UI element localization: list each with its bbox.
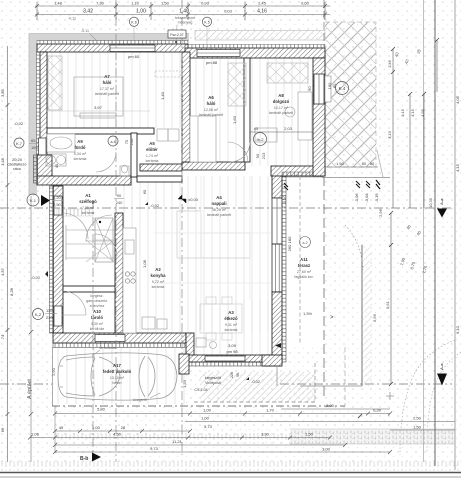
door size entry inner: [114, 193, 124, 205]
svg-text:A3: A3: [228, 310, 234, 315]
svg-text:3,90: 3,90: [261, 432, 270, 437]
svg-text:5,34 m²: 5,34 m²: [74, 152, 87, 156]
floor texture in rooms: [47, 52, 313, 355]
wall: left block sw corner step: [34, 155, 132, 185]
svg-text:1,20: 1,20: [182, 379, 187, 388]
svg-text:7,35 m²: 7,35 m²: [82, 206, 95, 210]
interior: hall washer boxes: [157, 129, 179, 141]
interior dim study: [250, 126, 313, 132]
svg-text:7,30: 7,30: [96, 1, 105, 6]
svg-text:-0,06: -0,06: [354, 193, 359, 203]
room label carport A17: [103, 363, 132, 385]
left dimension texts: [0, 88, 27, 432]
svg-text:13,10 m²: 13,10 m²: [110, 376, 125, 380]
svg-text:1,20: 1,20: [53, 195, 62, 200]
svg-text:4,95: 4,95: [420, 108, 425, 117]
svg-text:A6: A6: [208, 95, 214, 100]
right property lines: [424, 0, 456, 470]
svg-text:27,60 m²: 27,60 m²: [297, 270, 312, 274]
svg-text:9,61: 9,61: [385, 300, 390, 309]
site contour dotted curves bottom right: [345, 225, 461, 455]
svg-text:pm 88: pm 88: [206, 60, 218, 65]
axis line top right: [323, 0, 325, 400]
svg-text:A17: A17: [113, 363, 121, 368]
svg-text:Vb.lépcső: Vb.lépcső: [205, 381, 221, 385]
svg-text:>: >: [330, 315, 334, 321]
interior: entry closet band: [57, 209, 113, 262]
svg-text:utca: utca: [13, 166, 21, 171]
svg-text:260: 260: [287, 244, 292, 251]
svg-text:1,06: 1,06: [31, 432, 40, 437]
svg-text:A5: A5: [149, 141, 155, 146]
wall: dining west step wall: [186, 333, 194, 362]
svg-text:2,45: 2,45: [258, 1, 267, 6]
carport leader notes: [51, 346, 160, 402]
svg-text:50: 50: [370, 161, 375, 166]
gravel band bottom: [0, 429, 461, 471]
svg-text:0,39: 0,39: [373, 408, 382, 413]
svg-text:K.7: K.7: [16, 141, 23, 146]
svg-text:3,00: 3,00: [322, 447, 331, 452]
svg-text:1,00: 1,00: [92, 425, 101, 430]
svg-text:A2: A2: [155, 267, 161, 272]
svg-text:4,16: 4,16: [257, 9, 267, 15]
svg-text:1,46: 1,46: [387, 59, 392, 68]
svg-text:5,80: 5,80: [97, 407, 106, 412]
section marker B bottom: [80, 453, 101, 463]
svg-text:fedett parkoló: fedett parkoló: [103, 369, 132, 374]
svg-text:laminált parkett: laminált parkett: [207, 213, 231, 217]
svg-text:fagyálló ker.: fagyálló ker.: [294, 275, 313, 279]
svg-text:A1: A1: [85, 193, 91, 198]
room label study A8: [269, 93, 293, 115]
svg-text:9,31 m²: 9,31 m²: [225, 323, 238, 327]
svg-text:210: 210: [129, 138, 134, 145]
terrace slope text: [303, 311, 334, 321]
bottom border lines: [0, 473, 461, 478]
wall: lower-left exterior wall: [50, 186, 64, 333]
svg-text:90: 90: [117, 193, 122, 198]
wall: partition bath north: [47, 128, 154, 134]
level marker annex: [246, 377, 261, 384]
interior: bath fixtures: [46, 134, 129, 176]
corridor shelf lines: [66, 221, 115, 262]
svg-text:80: 80: [332, 83, 337, 88]
car top view: [58, 353, 177, 400]
svg-text:3,42: 3,42: [83, 9, 93, 15]
svg-text:A11: A11: [300, 257, 308, 262]
svg-text:4,15: 4,15: [455, 163, 460, 172]
zero level marker: [178, 195, 199, 203]
svg-text:-0,02: -0,02: [150, 203, 160, 208]
svg-text:110: 110: [46, 308, 53, 313]
bottom dimension lines: [30, 409, 455, 452]
svg-text:A4: A4: [216, 195, 222, 200]
room label terrace A11: [294, 257, 313, 279]
plus mark: [386, 392, 394, 400]
svg-text:49: 49: [59, 425, 64, 430]
svg-text:0,60: 0,60: [301, 1, 310, 6]
room label bath A9: [74, 139, 87, 161]
svg-text:150: 150: [31, 145, 38, 150]
svg-text:180: 180: [287, 236, 292, 243]
svg-text:4,37: 4,37: [0, 267, 5, 276]
interior: living sofa group: [154, 176, 271, 330]
svg-text:-0,16: -0,16: [374, 193, 379, 203]
interior: wardrobe bedroom2: [155, 63, 246, 106]
svg-text:a-2: a-2: [302, 241, 307, 245]
svg-text:konyha: konyha: [150, 273, 166, 278]
room label storage A10: [86, 294, 108, 331]
window mark K5: [202, 17, 211, 44]
svg-text:1,50: 1,50: [336, 161, 345, 166]
room label bedroom1 A7: [95, 74, 119, 96]
svg-text:A7: A7: [104, 74, 110, 79]
section line A2 horizontal: [0, 383, 452, 385]
door mark b2: [254, 133, 267, 160]
svg-text:A10: A10: [93, 309, 101, 314]
svg-text:étkező: étkező: [224, 316, 238, 321]
svg-text:9,72 m²: 9,72 m²: [152, 280, 165, 284]
svg-text:Ib-2: Ib-2: [257, 137, 265, 142]
wall: bedroom2 south wall: [140, 162, 245, 171]
room label living A4: [207, 195, 231, 217]
svg-text:4,15: 4,15: [410, 108, 415, 117]
svg-text:K.5: K.5: [204, 21, 209, 25]
roof lattice hatch top-right: [325, 22, 376, 167]
svg-text:1,48: 1,48: [0, 157, 5, 166]
svg-text:10,35: 10,35: [428, 197, 433, 208]
svg-text:2,50: 2,50: [413, 416, 422, 421]
dim line terrace north: [322, 150, 390, 178]
interior: bed bedroom1: [47, 77, 150, 118]
svg-text:-0,02: -0,02: [251, 379, 261, 384]
svg-text:6,10: 6,10: [455, 325, 460, 334]
svg-text:8,28: 8,28: [9, 287, 14, 296]
svg-text:90: 90: [236, 373, 240, 377]
svg-text:A-a: A-a: [439, 198, 444, 205]
svg-text:laminált parkett: laminált parkett: [199, 113, 223, 117]
svg-text:1,00: 1,00: [136, 9, 146, 15]
svg-text:3,00: 3,00: [326, 403, 335, 408]
interior: kitchen counter: [123, 228, 167, 333]
roof eave light outline top-left: [29, 31, 325, 196]
svg-text:1,70: 1,70: [266, 408, 275, 413]
svg-text:laminált parkett: laminált parkett: [95, 92, 119, 96]
svg-text:szélfogó: szélfogó: [79, 199, 97, 204]
svg-text:40: 40: [54, 163, 59, 168]
svg-text:4,50: 4,50: [113, 432, 122, 437]
svg-text:220: 220: [230, 372, 234, 378]
A épület label: [27, 379, 33, 399]
svg-text:50: 50: [362, 161, 367, 166]
wall: dining south wall: [186, 355, 281, 366]
svg-text:4,05: 4,05: [455, 95, 460, 104]
building interior white base: [37, 41, 325, 405]
svg-text:1,50: 1,50: [161, 1, 170, 6]
svg-text:240: 240: [116, 200, 123, 205]
section line A horizontal: [0, 207, 452, 209]
wall: partition bedroom2/study: [244, 58, 250, 162]
svg-text:2,90: 2,90: [51, 367, 56, 376]
right edge rotated dims: [455, 95, 460, 334]
svg-text:90: 90: [255, 153, 260, 158]
top dimension texts row1: [54, 1, 310, 6]
svg-text:-0,02: -0,02: [31, 275, 41, 280]
svg-text:-0,02: -0,02: [14, 121, 24, 126]
interior: wardrobe bedroom1: [48, 56, 62, 110]
svg-text:háló: háló: [103, 80, 112, 85]
carport slab and car: [52, 347, 345, 453]
svg-text:1,5%: 1,5%: [303, 311, 313, 316]
svg-text:pm 98: pm 98: [226, 349, 238, 354]
window size texts east wall: [142, 189, 311, 268]
wall: partition bath/hall: [131, 133, 182, 182]
svg-text:-0,04: -0,04: [364, 193, 369, 203]
svg-text:Fsz:2,37: Fsz:2,37: [170, 33, 183, 37]
svg-text:A-a: A-a: [439, 363, 444, 370]
window mark K6: [129, 17, 138, 40]
top dimension texts row2: [83, 9, 267, 15]
section marker A-A right: [437, 198, 447, 218]
annex note: [194, 372, 240, 392]
svg-text:kerámia: kerámia: [74, 157, 87, 161]
svg-text:B-b: B-b: [80, 456, 88, 462]
wall: partition bedroom2 west: [182, 52, 190, 162]
svg-text:36,29 m²: 36,29 m²: [212, 208, 227, 212]
wall: south wall kitchen/carport: [53, 333, 186, 348]
svg-text:3,97: 3,97: [94, 105, 103, 110]
level marker carport: [31, 271, 48, 280]
interior: study wardrobe: [267, 63, 308, 83]
level box: [168, 30, 186, 38]
door mark left lower: [33, 308, 58, 320]
svg-text:K.6: K.6: [131, 21, 136, 25]
svg-text:5,56: 5,56: [372, 313, 377, 322]
interior: door arcs: [62, 142, 250, 315]
svg-text:12,06 m²: 12,06 m²: [204, 108, 219, 112]
svg-text:tokszerkezet: tokszerkezet: [175, 16, 195, 20]
svg-text:A8: A8: [278, 93, 284, 98]
interior: bed bedroom2: [190, 116, 216, 162]
svg-text:CS-1.04: CS-1.04: [194, 388, 207, 392]
right vertical dims lower: [372, 197, 433, 386]
svg-text:1,00: 1,00: [203, 408, 212, 413]
entry arrow: [27, 194, 63, 207]
svg-text:1,40: 1,40: [160, 91, 165, 100]
svg-text:A épület: A épület: [27, 379, 33, 399]
bottom dimension ticks: [28, 412, 392, 455]
room label hall A5: [146, 141, 159, 163]
svg-text:háló: háló: [207, 101, 216, 106]
svg-text:kiegész.: kiegész.: [90, 294, 103, 298]
svg-text:1,50: 1,50: [305, 432, 314, 437]
svg-text:65: 65: [31, 138, 36, 143]
svg-text:a-4: a-4: [110, 140, 115, 144]
wall: top wall left block: [37, 41, 188, 53]
wall: partition storage north: [63, 286, 116, 292]
svg-text:2,96: 2,96: [378, 208, 383, 217]
svg-text:kerámia: kerámia: [225, 328, 238, 332]
svg-text:kerámia: kerámia: [82, 211, 95, 215]
carport pillar: [179, 354, 189, 388]
svg-text:0,93: 0,93: [201, 1, 210, 6]
wall: right exterior wall: [313, 58, 331, 176]
svg-text:K.1: K.1: [30, 198, 37, 203]
svg-text:213: 213: [261, 152, 266, 159]
svg-text:3,09: 3,09: [228, 343, 237, 348]
svg-text:térburkolat: térburkolat: [100, 346, 117, 350]
svg-text:került ide: került ide: [90, 327, 105, 331]
wall: kitchen partition: [115, 213, 123, 333]
room label bedroom2 A6: [199, 95, 223, 117]
retaining wall east of terrace: [300, 245, 372, 386]
svg-text:dolgozó: dolgozó: [273, 99, 290, 104]
pm labels: [94, 54, 238, 354]
svg-text:10,17 m²: 10,17 m²: [274, 106, 289, 110]
interior: study desk: [255, 92, 312, 142]
svg-text:±0,00: ±0,00: [188, 197, 199, 202]
svg-text:3,19: 3,19: [387, 130, 392, 139]
svg-text:-0,11: -0,11: [81, 29, 89, 33]
svg-text:66: 66: [0, 427, 5, 432]
svg-text:220: 220: [46, 315, 53, 320]
svg-text:2,03: 2,03: [284, 126, 293, 131]
dimension ticks top: [35, 4, 327, 17]
svg-text:4,15: 4,15: [400, 108, 405, 117]
svg-text:5,73: 5,73: [204, 424, 213, 429]
level marker kitchen: [145, 202, 160, 208]
right vertical dims: [387, 38, 439, 208]
drawing group: [54, 136, 134, 168]
top dimension lines: [35, 2, 330, 20]
svg-text:3,85: 3,85: [0, 88, 5, 97]
svg-text:A9: A9: [77, 139, 83, 144]
window mark K4 and size: [307, 82, 349, 98]
svg-text:műanyag: műanyag: [178, 21, 193, 25]
svg-text:-0,10: -0,10: [282, 195, 287, 205]
svg-text:11,21: 11,21: [172, 439, 182, 444]
svg-text:tároló: tároló: [91, 315, 103, 320]
svg-text:2,50: 2,50: [53, 202, 62, 207]
svg-text:74: 74: [0, 334, 5, 339]
svg-text:előtér: előtér: [146, 147, 158, 152]
svg-text:pm 60: pm 60: [128, 54, 140, 59]
svg-text:28: 28: [121, 425, 126, 430]
svg-text:17,37 m²: 17,37 m²: [100, 87, 115, 91]
svg-text:1,50: 1,50: [413, 425, 422, 430]
window mark K7: [14, 138, 39, 150]
svg-text:1,40: 1,40: [179, 9, 189, 15]
wall: east wall living/dining: [272, 175, 286, 362]
wall: study south wall: [271, 166, 325, 177]
interior: annex fixtures: [196, 338, 217, 349]
room label dining A3: [224, 310, 238, 332]
svg-text:3,30 m²: 3,30 m²: [91, 322, 104, 326]
overhang hatch south of dining room: [194, 362, 315, 402]
wall: top wall right block: [185, 45, 325, 59]
svg-text:a tervhez: a tervhez: [90, 304, 105, 308]
bottom dimension texts: [31, 403, 422, 452]
left property/dim verticals: [6, 46, 34, 462]
svg-text:-0,11: -0,11: [68, 17, 76, 21]
svg-text:nappali: nappali: [211, 201, 226, 206]
svg-text:1,74 m²: 1,74 m²: [146, 154, 159, 158]
section line B vertical: [93, 0, 116, 462]
svg-text:üvegtető: üvegtető: [133, 398, 147, 402]
svg-text:1,60: 1,60: [232, 115, 237, 124]
svg-text:1,00: 1,00: [201, 416, 210, 421]
room label kitchen A2: [150, 267, 166, 289]
note text top: [68, 16, 195, 43]
svg-text:0,03: 0,03: [224, 9, 233, 14]
svg-text:K.4: K.4: [339, 86, 346, 91]
svg-text:kerámia: kerámia: [146, 159, 159, 163]
svg-text:beton: beton: [113, 381, 122, 385]
terrace slab edge dashed: [299, 176, 301, 345]
wall: left exterior wall: [37, 52, 48, 156]
svg-text:kiegészítő: kiegészítő: [205, 376, 221, 380]
svg-text:1,10: 1,10: [131, 1, 140, 6]
section marker lower right: [437, 363, 447, 386]
svg-text:45: 45: [254, 126, 259, 131]
svg-text:laminált parkett: laminált parkett: [269, 111, 293, 115]
section line B2 vertical: [181, 0, 183, 455]
svg-text:kerámia: kerámia: [152, 285, 165, 289]
svg-text:gardrobszekr.: gardrobszekr.: [86, 299, 108, 303]
interior: entry door arc: [95, 234, 117, 256]
interior: dining table: [200, 297, 242, 340]
svg-text:1,48: 1,48: [54, 1, 63, 6]
room label entry A1: [79, 193, 97, 215]
level marks near terrace: [282, 180, 380, 205]
svg-text:1,08: 1,08: [142, 259, 147, 268]
wall: annex east wall (dining): [262, 343, 282, 386]
svg-text:K-2: K-2: [35, 312, 42, 317]
svg-text:9,73: 9,73: [150, 446, 159, 451]
svg-text:terasz: terasz: [298, 263, 310, 268]
svg-text:fürdő: fürdő: [75, 145, 86, 150]
svg-text:60: 60: [142, 189, 147, 194]
